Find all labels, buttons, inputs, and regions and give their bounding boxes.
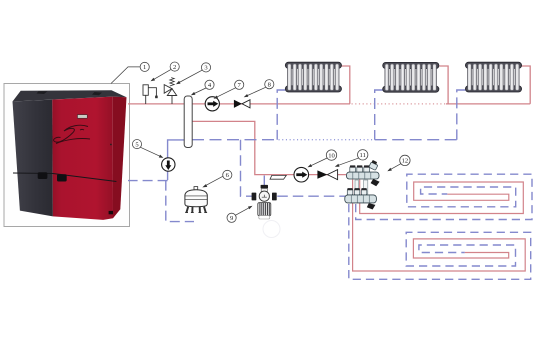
leader 3 — [177, 70, 202, 84]
pipe: radiator 1 return drop — [277, 90, 285, 140]
pipe: blue return into boiler — [128, 180, 168, 182]
svg-text:2: 2 — [173, 64, 176, 71]
pipe: blue separator to boiler pump — [168, 140, 185, 171]
pump 7 — [205, 97, 219, 111]
manifold 12 — [345, 160, 380, 210]
hydraulic separator 4 — [184, 96, 192, 148]
mixing unit 9 — [252, 185, 277, 219]
valve 8 — [234, 100, 250, 108]
watermark circle — [263, 221, 280, 238]
svg-text:11: 11 — [360, 152, 366, 159]
pipe: radiator 3 supply riser — [521, 66, 530, 104]
radiator 1 — [285, 62, 341, 92]
pipe: blue return radiator2 to radiator3 — [375, 139, 457, 141]
radiator 2 — [383, 62, 439, 92]
pipe: radiator 2 return drop — [375, 90, 383, 140]
safety relief valve 3 — [164, 78, 177, 104]
pipe: blue return dotted section — [279, 139, 375, 141]
pipe: red supply separator to floor circuit — [192, 121, 346, 174]
pipe: red supply separator to radiator riser 1 — [192, 103, 350, 105]
boiler — [13, 90, 127, 220]
pipe: blue return mixing unit to manifold — [277, 195, 345, 197]
pipe: blue branch down to mixing unit — [241, 140, 253, 197]
pipe: red supply to radiator 3 — [446, 103, 530, 105]
leader 7 — [215, 88, 236, 98]
pipe: red supply dotted continuation — [352, 103, 447, 105]
leader 4 — [192, 88, 206, 95]
pipe: red supply boiler to separator — [128, 103, 185, 105]
valve 11 — [317, 170, 337, 180]
pipe: radiator 2 supply riser — [439, 66, 448, 104]
boiler pump 5 — [162, 158, 175, 171]
pump 10 — [294, 167, 309, 182]
leader 1 — [111, 67, 140, 84]
expansion tank 6 — [185, 187, 207, 213]
leader 9 — [235, 206, 251, 215]
svg-text:12: 12 — [402, 158, 409, 165]
pipe: radiator 1 supply riser — [342, 66, 350, 104]
safety group 2 — [143, 85, 158, 104]
svg-text:10: 10 — [328, 152, 335, 159]
pipe: radiator 3 return drop — [457, 90, 466, 140]
pipe: blue return floor loop 2 — [349, 204, 531, 279]
pipe: blue stub from supply to mixing unit — [263, 176, 265, 190]
leader 11 — [336, 158, 359, 166]
leader 6 — [204, 176, 223, 186]
pipe: red supply to floor loop 1 — [360, 180, 524, 214]
leader 10 — [309, 158, 328, 167]
component (tray) on floor supply — [270, 175, 286, 179]
callout leaders — [111, 67, 401, 215]
leader 12 — [389, 163, 402, 170]
svg-text:1: 1 — [143, 64, 146, 71]
pipe: blue return main separator to radiator 1 — [192, 139, 277, 141]
signature — [54, 125, 90, 143]
pipe: blue drop to expansion tank — [166, 181, 194, 222]
radiator 3 — [465, 62, 521, 92]
pipe: blue return floor loop 1 — [356, 174, 532, 219]
leader 8 — [245, 87, 266, 96]
callout circles — [132, 62, 410, 222]
pipe: red supply to floor loop 2 — [353, 180, 526, 272]
leader 5 — [141, 147, 163, 157]
leader 2 — [152, 69, 172, 80]
boiler frame — [4, 84, 130, 227]
